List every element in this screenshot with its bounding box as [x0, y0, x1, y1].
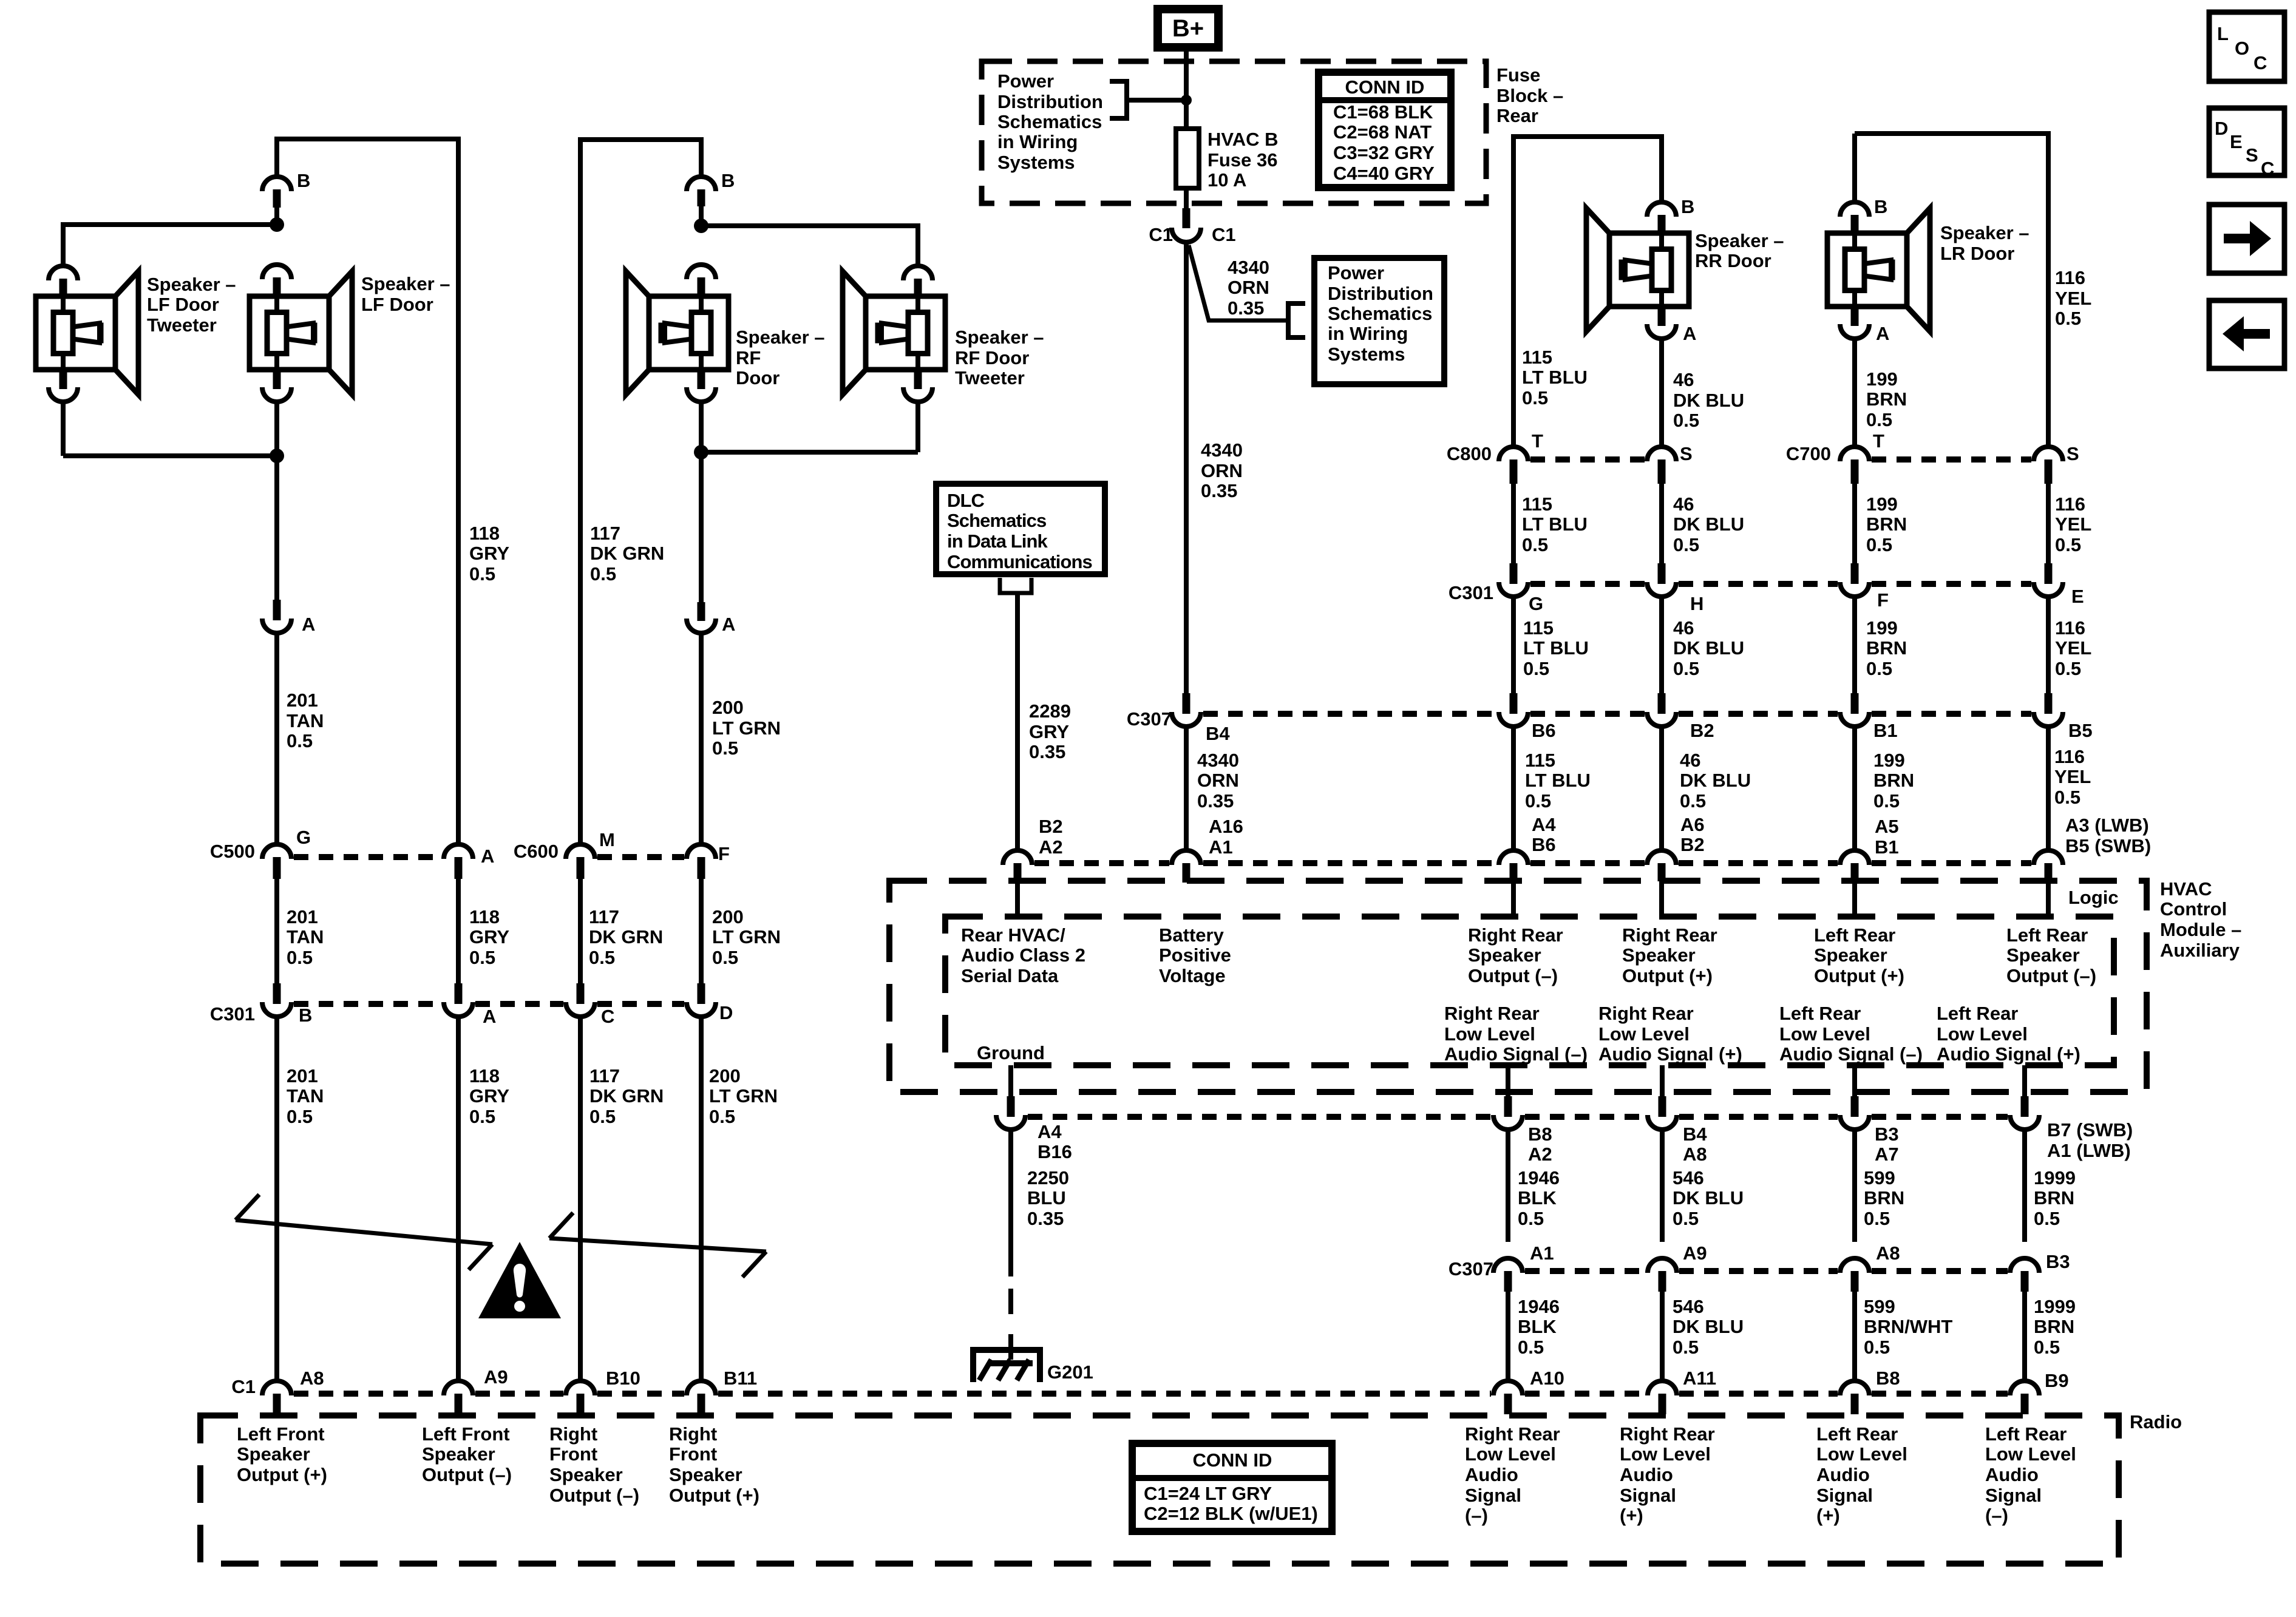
wire 201 TAN segment 3: [274, 879, 279, 983]
svg-text:B8: B8: [1876, 1368, 1900, 1389]
svg-text:H: H: [1690, 593, 1703, 614]
svg-text:115: 115: [1525, 750, 1555, 771]
wire dashed radio row 7: [1872, 1391, 2008, 1397]
label 546 DK BLU 0.5 (1): [1673, 1167, 1744, 1229]
svg-text:Audio Signal (–): Audio Signal (–): [1779, 1043, 1923, 1065]
svg-text:GRY: GRY: [469, 1085, 509, 1107]
connector module pin B3/A7: [1840, 1096, 1869, 1130]
svg-text:G: G: [1529, 593, 1543, 614]
connector C800 pin T: [1499, 447, 1528, 484]
svg-text:C2=68 NAT: C2=68 NAT: [1333, 121, 1432, 143]
connector C500 pin A: [444, 844, 473, 879]
wire module stub A5/B1 to inner: [1852, 881, 1857, 917]
connector module pin A16/A1: [1172, 850, 1201, 883]
wire 46 to module: [1659, 728, 1664, 849]
svg-text:Module –: Module –: [2160, 919, 2241, 940]
label 115 LT BLU 0.5 (3): [1523, 617, 1589, 679]
svg-text:Speaker: Speaker: [549, 1464, 623, 1485]
svg-text:B: B: [297, 170, 310, 191]
svg-text:Speaker: Speaker: [1468, 944, 1541, 966]
svg-text:199: 199: [1866, 368, 1898, 390]
svg-text:Audio: Audio: [1985, 1464, 2039, 1485]
svg-text:BRN: BRN: [1866, 514, 1907, 535]
wire B7 inner to stub: [2022, 1065, 2027, 1097]
wire top horizontal RR circuit: [1513, 134, 1662, 445]
svg-text:599: 599: [1864, 1167, 1895, 1188]
svg-text:0.5: 0.5: [1518, 1208, 1544, 1229]
svg-text:C1: C1: [231, 1376, 256, 1397]
node junction dot LF top: [270, 217, 284, 232]
node junction dot LF bottom: [270, 449, 284, 463]
svg-text:200: 200: [712, 697, 744, 718]
svg-text:LT BLU: LT BLU: [1523, 637, 1589, 659]
box Power Distribution Schematics in Wiring Systems: [1314, 258, 1444, 384]
label pin A9 radio: [484, 1366, 508, 1388]
connector radio pin B8: [1840, 1381, 1869, 1414]
svg-text:in Wiring: in Wiring: [997, 131, 1078, 152]
svg-text:LT BLU: LT BLU: [1525, 770, 1591, 791]
svg-text:C800: C800: [1447, 443, 1492, 464]
svg-text:46: 46: [1673, 369, 1694, 390]
svg-text:Audio: Audio: [1465, 1464, 1518, 1485]
svg-text:A7: A7: [1875, 1144, 1899, 1165]
wire 46 DK BLU segment 1: [1659, 339, 1664, 445]
label pin A9 lower: [1683, 1242, 1707, 1264]
wire B4 inner to stub: [1660, 1065, 1665, 1097]
svg-text:Output (+): Output (+): [1622, 965, 1713, 986]
wire 118 GRY segment 1: [456, 139, 461, 842]
svg-text:115: 115: [1523, 617, 1554, 639]
svg-text:0.5: 0.5: [469, 563, 495, 585]
svg-text:200: 200: [709, 1065, 741, 1086]
connector radio pin A8: [262, 1381, 291, 1414]
svg-text:DK BLU: DK BLU: [1673, 514, 1744, 535]
table CONN ID radio: [1132, 1443, 1332, 1531]
svg-text:Battery: Battery: [1159, 924, 1224, 946]
connector C307 pin B5: [2034, 693, 2063, 727]
warning triangle symbol: [478, 1242, 561, 1318]
svg-text:A8: A8: [300, 1368, 324, 1389]
connector module pin A3/B5: [2034, 850, 2063, 881]
label 115 LT BLU 0.5 (4): [1525, 750, 1591, 812]
wire dashed module row 1: [1034, 860, 1169, 866]
svg-text:C3=32 GRY: C3=32 GRY: [1333, 142, 1435, 163]
svg-text:0.5: 0.5: [287, 730, 313, 751]
label pin F C301r: [1877, 589, 1889, 611]
svg-text:116: 116: [2055, 617, 2085, 639]
label pin S C700: [2067, 443, 2079, 464]
svg-text:0.5: 0.5: [1680, 790, 1706, 812]
svg-text:(+): (+): [1816, 1505, 1840, 1526]
connector C600 label: [514, 841, 559, 862]
label pin B2: [1690, 720, 1714, 741]
svg-text:in Data Link: in Data Link: [947, 531, 1048, 552]
svg-text:A2: A2: [1528, 1144, 1552, 1165]
svg-text:Door: Door: [736, 367, 779, 388]
svg-text:DK GRN: DK GRN: [589, 1085, 664, 1107]
svg-text:Audio Signal (–): Audio Signal (–): [1444, 1043, 1588, 1065]
svg-text:Audio Signal (+): Audio Signal (+): [1937, 1043, 2080, 1065]
wire 199 BRN segment 3: [1852, 598, 1857, 693]
label pin B7(SWB) A1(LWB): [2047, 1119, 2133, 1161]
break symbol across wires 117/200: [549, 1213, 766, 1277]
label pin B11: [724, 1368, 757, 1389]
svg-text:BRN: BRN: [1864, 1187, 1904, 1209]
label Right Front Speaker Output (-): [549, 1423, 639, 1506]
svg-text:Right Rear: Right Rear: [1468, 924, 1563, 946]
connector module pin A4/B6: [1499, 850, 1528, 881]
label 1999 BRN 0.5 (2): [2034, 1296, 2076, 1358]
box HVAC Control Module outer border: [889, 881, 2147, 1092]
svg-text:Right Rear: Right Rear: [1620, 1423, 1715, 1445]
svg-text:Left Rear: Left Rear: [2006, 924, 2088, 946]
wire ground inner to stub: [1008, 1065, 1013, 1097]
svg-text:Front: Front: [549, 1443, 597, 1465]
svg-text:Right Rear: Right Rear: [1444, 1003, 1540, 1024]
speaker RR Door: [1586, 208, 1689, 331]
connector C301 pin A: [444, 983, 473, 1017]
connector C301 right label: [1449, 582, 1493, 603]
connector C301 pin D: [687, 983, 716, 1017]
label pin B3 A7: [1875, 1124, 1899, 1165]
svg-text:G201: G201: [1047, 1361, 1093, 1383]
label Battery Positive Voltage: [1159, 924, 1231, 986]
svg-text:B2: B2: [1690, 720, 1714, 741]
svg-text:DK BLU: DK BLU: [1673, 637, 1744, 659]
svg-text:C307: C307: [1449, 1258, 1493, 1280]
svg-text:Radio: Radio: [2130, 1411, 2182, 1432]
connector C700 pin T: [1840, 447, 1869, 484]
svg-text:0.5: 0.5: [1673, 410, 1699, 431]
label pin B10: [606, 1368, 640, 1389]
connector radio pin B11: [687, 1381, 716, 1414]
svg-text:RF: RF: [736, 347, 761, 368]
speaker RF Door: [626, 271, 729, 395]
svg-text:115: 115: [1522, 347, 1552, 368]
label C1 left: [1149, 224, 1173, 245]
connector C500 label: [210, 841, 255, 862]
svg-text:BRN: BRN: [1866, 637, 1907, 659]
svg-text:A4: A4: [1532, 814, 1556, 835]
svg-text:0.35: 0.35: [1029, 741, 1065, 762]
svg-text:BRN: BRN: [2034, 1187, 2074, 1209]
svg-text:S: S: [2246, 144, 2258, 166]
svg-text:ORN: ORN: [1197, 770, 1239, 791]
connector module pin B2/A2: [1003, 850, 1032, 881]
svg-text:C: C: [2254, 52, 2267, 73]
connector C301 pin G right: [1499, 563, 1528, 597]
svg-text:B8: B8: [1528, 1124, 1552, 1145]
wire dashed module bottom 4: [1872, 1114, 2008, 1120]
wire module stub B2/A2 to inner: [1015, 881, 1020, 917]
svg-text:Tweeter: Tweeter: [955, 367, 1025, 388]
svg-text:Low Level: Low Level: [1937, 1023, 2028, 1045]
svg-text:B2: B2: [1680, 834, 1705, 855]
svg-text:C700: C700: [1786, 443, 1831, 464]
svg-text:(–): (–): [1985, 1505, 2008, 1526]
label pin B3 lower: [2046, 1251, 2070, 1272]
label pin A3(LWB) B5(SWB): [2065, 815, 2151, 856]
svg-text:A: A: [302, 614, 315, 635]
svg-text:GRY: GRY: [1029, 721, 1069, 742]
wire B3 inner to stub: [1852, 1065, 1857, 1097]
svg-text:Systems: Systems: [997, 152, 1075, 173]
svg-text:YEL: YEL: [2054, 766, 2091, 787]
label pin A8 radio: [300, 1368, 324, 1389]
svg-text:0.5: 0.5: [590, 563, 616, 585]
connector radio pin A9: [444, 1381, 473, 1414]
svg-text:Right: Right: [669, 1423, 717, 1445]
svg-text:LT BLU: LT BLU: [1522, 367, 1588, 388]
svg-text:LF Door: LF Door: [147, 294, 219, 315]
svg-text:Schematics: Schematics: [947, 510, 1046, 531]
svg-text:0.5: 0.5: [287, 947, 313, 968]
svg-text:0.5: 0.5: [1866, 658, 1892, 679]
svg-text:Signal: Signal: [1985, 1485, 2042, 1506]
svg-text:0.5: 0.5: [712, 737, 738, 759]
wire dashed radio row 1: [294, 1391, 441, 1397]
wire dashed radio row 4: [718, 1391, 1491, 1397]
wire 201 TAN segment 2: [274, 635, 279, 842]
wire 599 lower: [1852, 1292, 1857, 1379]
wire B8 inner to stub: [1506, 1065, 1510, 1097]
label Left Rear Low Level Audio Signal (-): [1779, 1003, 1923, 1065]
svg-text:A1 (LWB): A1 (LWB): [2047, 1140, 2131, 1161]
label pin B6: [1532, 720, 1556, 741]
wire dashed C800: [1530, 456, 1645, 463]
svg-text:A8: A8: [1683, 1144, 1707, 1165]
label pin E: [2071, 586, 2084, 607]
wire 200 LT GRN segment 2: [699, 635, 704, 842]
label pin B2 A2: [1039, 816, 1063, 858]
svg-text:4340: 4340: [1201, 439, 1243, 461]
label HVAC Control Module - Auxiliary: [2160, 878, 2241, 961]
svg-text:B3: B3: [2046, 1251, 2070, 1272]
wire dashed C500: [294, 854, 441, 860]
connector C307 lower pin A9: [1648, 1258, 1677, 1292]
wire 546 lower: [1660, 1292, 1665, 1379]
label Right Rear Low Level Audio Signal (-): [1444, 1003, 1588, 1065]
svg-text:0.5: 0.5: [287, 1106, 313, 1127]
svg-text:0.5: 0.5: [2055, 534, 2081, 555]
svg-text:A4: A4: [1038, 1121, 1062, 1142]
svg-text:(–): (–): [1465, 1505, 1488, 1526]
connector C307 right label: [1127, 708, 1172, 730]
table CONN ID fuse block: [1319, 72, 1451, 188]
svg-text:0.5: 0.5: [1518, 1337, 1544, 1358]
wire 118 GRY segment 3: [456, 1019, 461, 1379]
label C1 right: [1212, 224, 1236, 245]
label A RR: [1683, 323, 1696, 344]
connector C307 pin B1: [1840, 693, 1869, 727]
nav box DESC: [2209, 108, 2284, 179]
svg-text:115: 115: [1522, 493, 1552, 515]
svg-text:Systems: Systems: [1328, 344, 1405, 365]
svg-text:RR Door: RR Door: [1695, 250, 1771, 271]
connector radio C1 label: [231, 1376, 256, 1397]
svg-text:Speaker –: Speaker –: [1695, 230, 1784, 251]
label 199 BRN 0.5 (4): [1873, 750, 1914, 812]
label 46 DK BLU 0.5 (1): [1673, 369, 1744, 431]
svg-text:LR Door: LR Door: [1940, 243, 2014, 264]
svg-text:Speaker –: Speaker –: [361, 273, 450, 294]
svg-text:Right Rear: Right Rear: [1465, 1423, 1560, 1445]
svg-text:Speaker: Speaker: [669, 1464, 742, 1485]
svg-text:C301: C301: [1449, 582, 1493, 603]
wire dashed C301 left 1: [294, 1001, 441, 1007]
connector C307 lower pin B3: [2010, 1258, 2039, 1292]
connector RF Door speaker top: [687, 265, 716, 296]
label 199 BRN 0.5 (3): [1866, 617, 1907, 679]
wire dashed C307 right 3: [1679, 711, 1838, 717]
svg-text:ORN: ORN: [1201, 460, 1243, 481]
wire from B to junction RF: [699, 206, 704, 226]
svg-text:BRN/WHT: BRN/WHT: [1864, 1316, 1952, 1337]
wire dashed module row 2: [1203, 860, 1496, 866]
svg-text:Output (+): Output (+): [669, 1485, 759, 1506]
svg-text:0.5: 0.5: [589, 1106, 616, 1127]
svg-text:Low Level: Low Level: [1598, 1023, 1690, 1045]
connector C800 pin S: [1647, 447, 1676, 484]
connector module pin A5/B1: [1840, 850, 1869, 881]
svg-text:C2=12 BLK (w/UE1): C2=12 BLK (w/UE1): [1144, 1503, 1318, 1524]
connector C700 label: [1786, 443, 1831, 464]
connector module pin B4/A8: [1648, 1096, 1677, 1130]
label A RF: [722, 614, 735, 635]
svg-text:0.35: 0.35: [1197, 790, 1234, 812]
svg-text:Distribution: Distribution: [997, 91, 1103, 112]
svg-text:546: 546: [1673, 1167, 1704, 1188]
svg-text:A16: A16: [1209, 816, 1243, 837]
connector RF tweeter top: [903, 266, 932, 297]
label 117 DK GRN 0.5 (2): [589, 906, 663, 968]
svg-text:Control: Control: [2160, 898, 2227, 920]
fuse HVAC B Fuse 36 10A: [1176, 129, 1199, 188]
label Left Rear Low Level Audio Signal (-) radio: [1985, 1423, 2076, 1526]
connector module pin A4/B16: [996, 1096, 1025, 1130]
svg-text:46: 46: [1673, 493, 1694, 515]
connector B LR speaker: [1840, 202, 1869, 233]
speaker LR Door: [1827, 208, 1930, 331]
label 199 BRN 0.5 (1): [1866, 368, 1907, 430]
svg-text:C600: C600: [514, 841, 559, 862]
svg-text:Right Rear: Right Rear: [1598, 1003, 1694, 1024]
label Left Front Speaker Output (-): [422, 1423, 512, 1485]
wire 117 DK GRN segment 2: [578, 879, 583, 983]
connector A RR speaker: [1647, 307, 1676, 339]
svg-text:117: 117: [589, 1065, 620, 1086]
svg-text:0.5: 0.5: [2034, 1208, 2060, 1229]
svg-text:B6: B6: [1532, 720, 1556, 741]
label 4340 ORN 0.35 (1): [1228, 257, 1269, 319]
svg-text:1946: 1946: [1518, 1296, 1560, 1317]
svg-text:A: A: [1876, 323, 1889, 344]
wire fuse to C1: [1184, 188, 1189, 208]
svg-text:B3: B3: [1875, 1124, 1899, 1145]
label Right Front Speaker Output (+): [669, 1423, 759, 1506]
wire top horizontal LF circuit (456-755): [277, 137, 458, 175]
svg-text:CONN ID: CONN ID: [1345, 76, 1425, 98]
svg-text:A11: A11: [1683, 1368, 1716, 1389]
label 116 YEL 0.5 (4): [2054, 746, 2091, 808]
wire 201 TAN segment 4: [274, 1019, 279, 1379]
wire RF tweeter loop bottom: [701, 402, 918, 452]
label 116 YEL 0.5 (1): [2055, 267, 2091, 329]
svg-text:Low Level: Low Level: [1620, 1443, 1711, 1465]
label A: [302, 614, 315, 635]
svg-text:Left Front: Left Front: [237, 1423, 325, 1445]
wire dashed C307 lower 1: [1525, 1268, 1645, 1274]
label Logic: [2068, 887, 2119, 908]
svg-text:Audio Signal (+): Audio Signal (+): [1598, 1043, 1742, 1065]
connector radio pin B9: [2010, 1381, 2039, 1414]
svg-text:Signal: Signal: [1465, 1485, 1521, 1506]
svg-text:A: A: [483, 1006, 496, 1027]
svg-text:Speaker: Speaker: [1814, 944, 1887, 966]
wire 200 LT GRN segment 4: [699, 1019, 704, 1379]
label G201: [1047, 1361, 1093, 1383]
connector C301 pin B: [262, 983, 291, 1017]
wire ground segment: [1008, 1131, 1013, 1363]
svg-text:B9: B9: [2045, 1370, 2069, 1391]
svg-text:E: E: [2230, 131, 2243, 152]
label pin B4: [1206, 723, 1230, 744]
label 2289 GRY 0.35: [1029, 700, 1071, 762]
nav box LOC: [2209, 12, 2284, 81]
svg-text:O: O: [2235, 38, 2249, 59]
svg-text:117: 117: [590, 523, 620, 544]
svg-text:0.5: 0.5: [1866, 409, 1892, 430]
label pin B9: [2045, 1370, 2069, 1391]
wire dashed radio row 5: [1525, 1391, 1645, 1397]
label Left Front Speaker Output (+): [237, 1423, 327, 1485]
wire module stub A6/B2 to inner: [1659, 881, 1664, 917]
svg-text:116: 116: [2054, 746, 2085, 767]
svg-text:0.35: 0.35: [1027, 1208, 1064, 1229]
connector LF Door speaker bottom: [262, 370, 291, 402]
wire dashed module row 4: [1679, 860, 1838, 866]
svg-text:B16: B16: [1038, 1141, 1072, 1162]
svg-text:DK BLU: DK BLU: [1673, 390, 1744, 411]
break symbol across wires 201/118: [236, 1195, 492, 1270]
svg-text:200: 200: [712, 906, 744, 927]
svg-text:ORN: ORN: [1228, 277, 1269, 298]
label 200 LT GRN 0.5 (2): [712, 906, 781, 968]
svg-text:0.5: 0.5: [1673, 1337, 1699, 1358]
svg-text:Fuse 36: Fuse 36: [1207, 149, 1277, 171]
svg-text:0.35: 0.35: [1228, 297, 1264, 319]
connector C700 pin S: [2034, 447, 2063, 484]
svg-text:46: 46: [1673, 617, 1694, 639]
connector module pin B7/A1: [2010, 1096, 2039, 1130]
speaker LF Door: [250, 271, 352, 395]
svg-text:Front: Front: [669, 1443, 717, 1465]
svg-text:116: 116: [2055, 493, 2085, 515]
label 46 DK BLU 0.5 (4): [1680, 750, 1751, 812]
connector C307 lower label: [1449, 1258, 1493, 1280]
svg-text:Distribution: Distribution: [1328, 283, 1433, 304]
svg-text:Power: Power: [997, 70, 1054, 92]
svg-text:in Wiring: in Wiring: [1328, 323, 1408, 344]
svg-text:Output (–): Output (–): [422, 1464, 512, 1485]
connector radio pin B10: [566, 1381, 595, 1414]
connector C307 lower pin A8: [1840, 1258, 1869, 1292]
svg-text:YEL: YEL: [2055, 288, 2091, 309]
speaker LF Door Tweeter: [36, 271, 138, 395]
svg-text:B4: B4: [1683, 1124, 1707, 1145]
svg-text:B1: B1: [1875, 836, 1899, 858]
label B: [297, 170, 310, 191]
